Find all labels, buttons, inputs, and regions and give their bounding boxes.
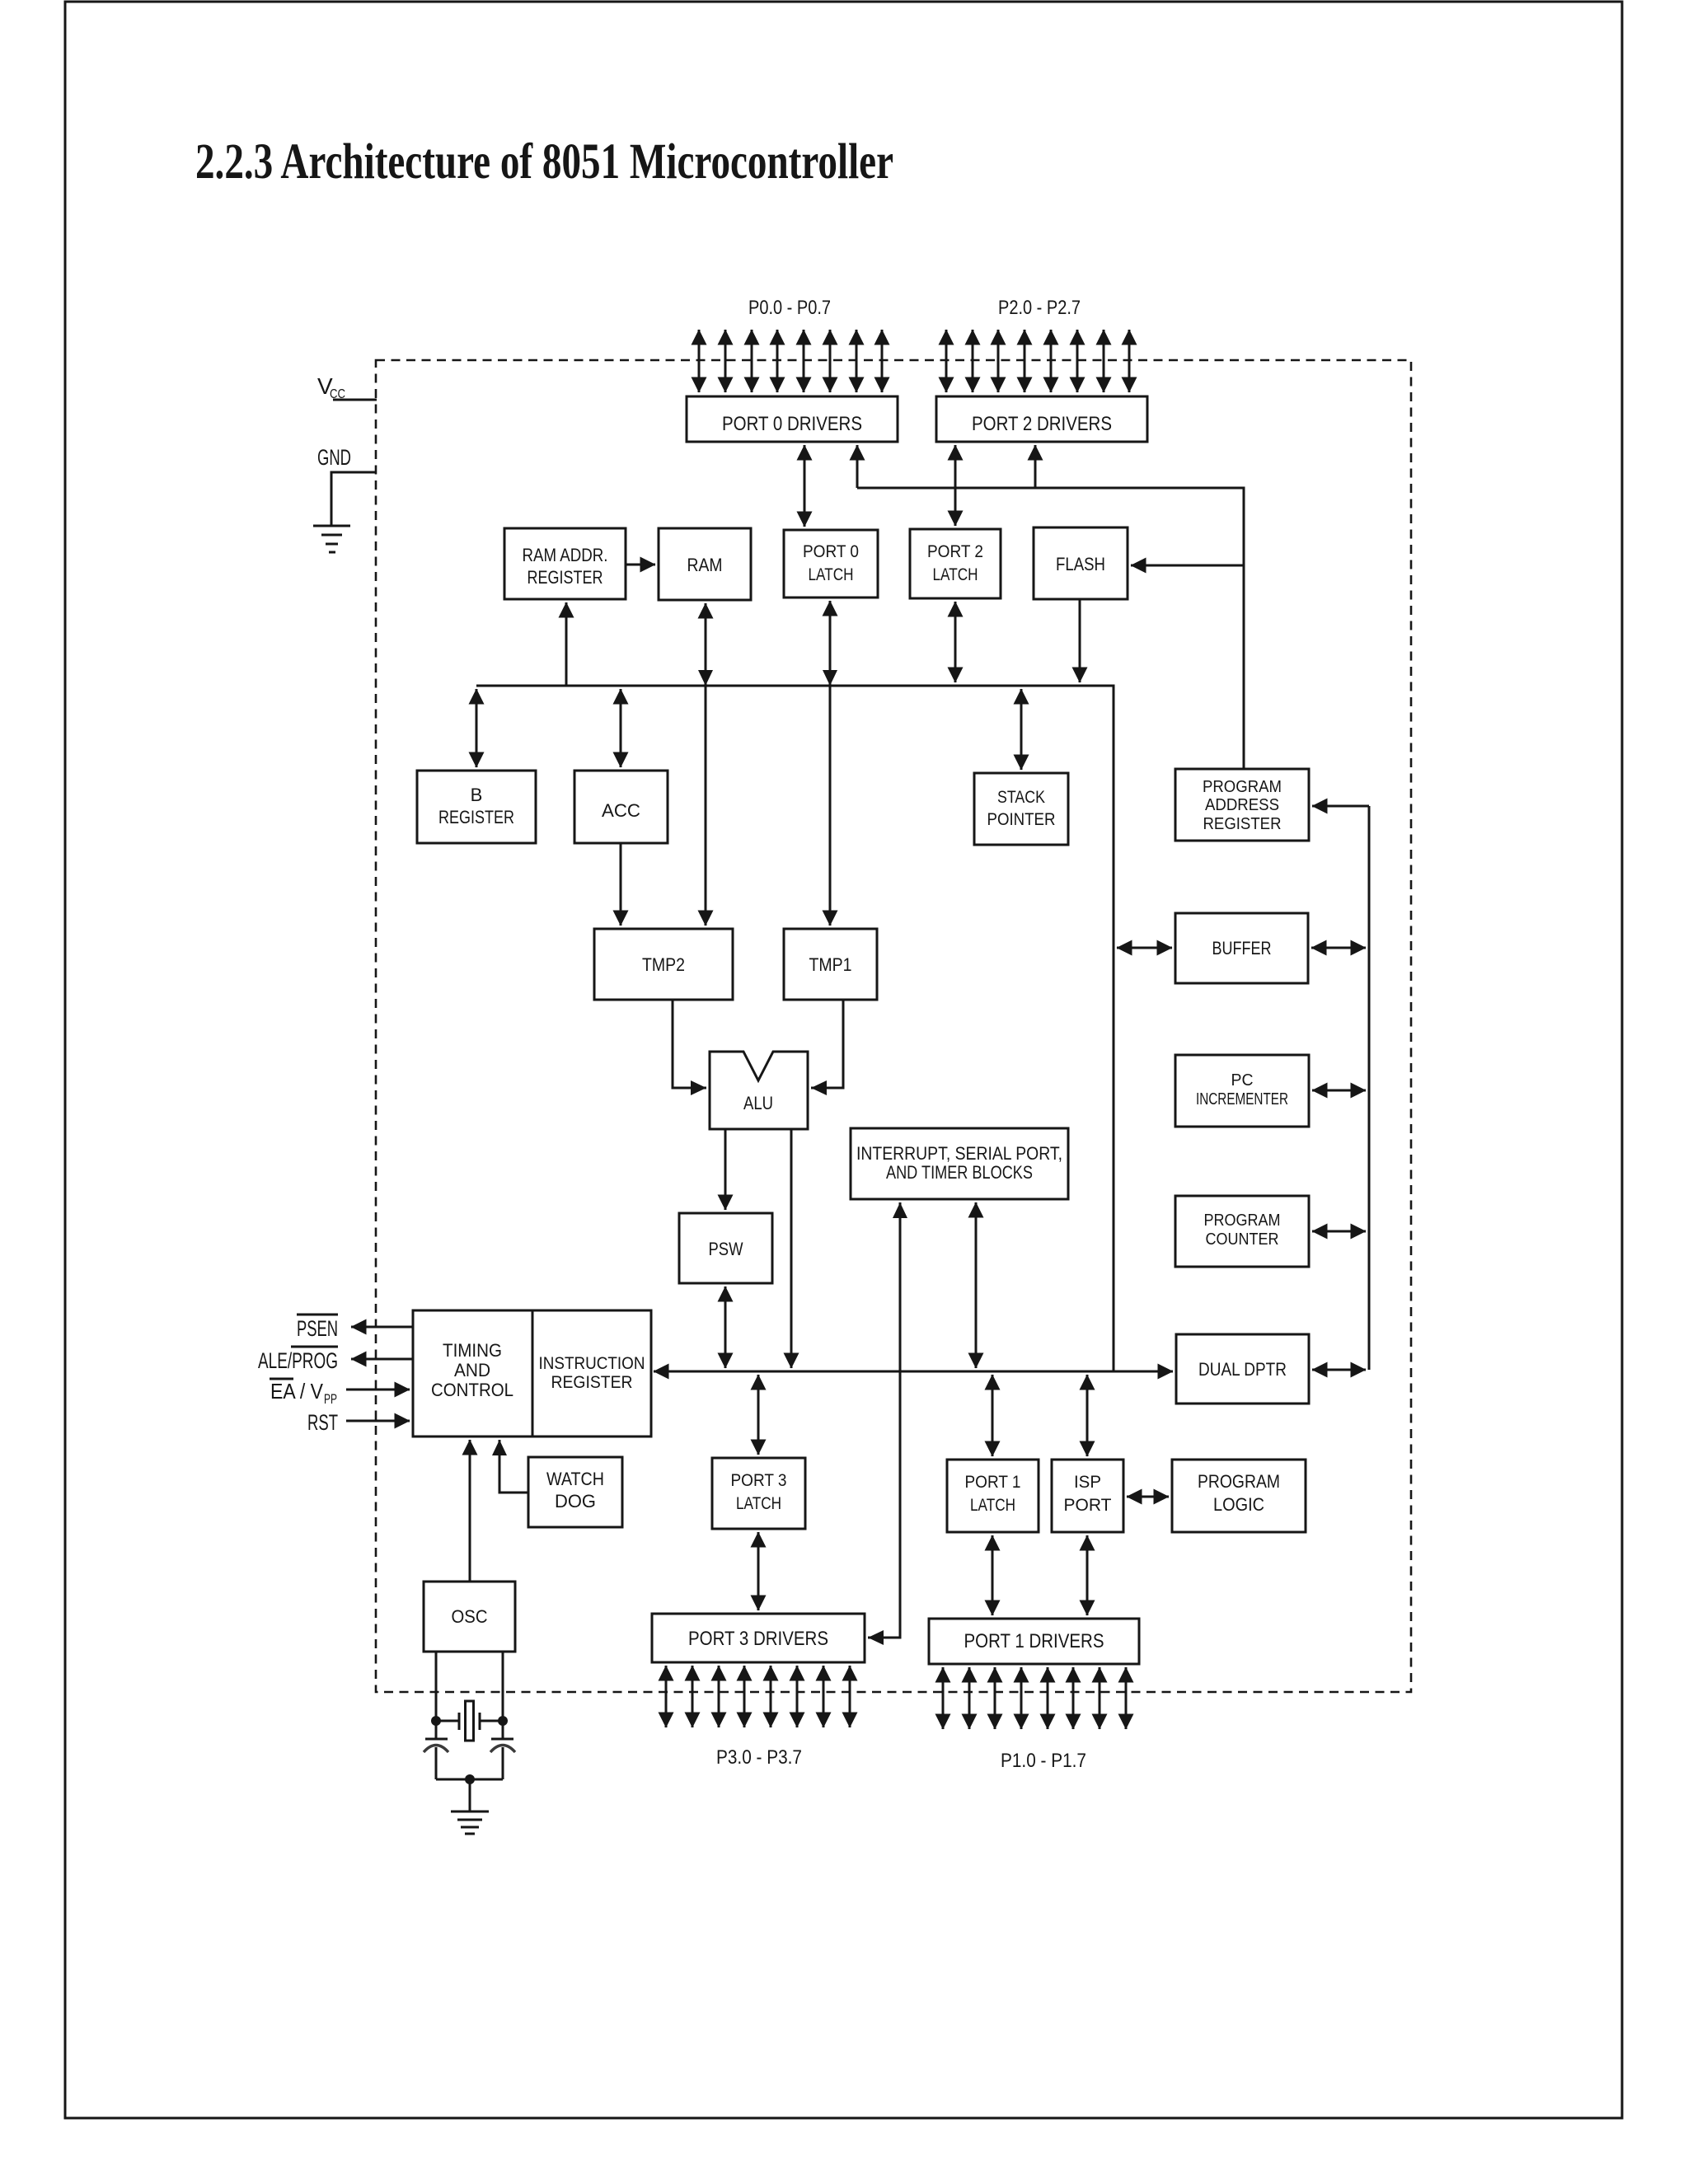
chip boundary (dashed outline) [376, 360, 1411, 1692]
wire PORT 0 DRIVERS to PORT 0 LATCH [804, 445, 806, 527]
TMP1 box [784, 929, 877, 1000]
ground symbol (GND pin) [313, 526, 350, 552]
BUFFER box [1175, 913, 1308, 983]
wire DUAL DPTR to program counter bus [1312, 1369, 1366, 1371]
wire control bus to ISP PORT [1086, 1375, 1089, 1456]
svg-text:OSC: OSC [452, 1606, 488, 1627]
svg-text:FLASH: FLASH [1056, 554, 1105, 574]
svg-text:PORT: PORT [1064, 1496, 1112, 1515]
wire BUFFER to program counter bus [1311, 947, 1366, 949]
RAM ADDR. REGISTER box [504, 528, 626, 599]
STACK POINTER box [974, 773, 1068, 845]
wire control bus to PORT 3 LATCH [757, 1375, 760, 1455]
svg-text:PSW: PSW [709, 1239, 743, 1259]
port 1 external pin arrows (P1.0-P1.7) [943, 1667, 1126, 1729]
svg-text:INSTRUCTION: INSTRUCTION [539, 1354, 645, 1373]
wire OSC left leg [435, 1652, 438, 1721]
wire GND pin to chip and ground [331, 472, 377, 525]
wire bus to B REGISTER [476, 689, 478, 767]
wire PSEN [351, 1326, 413, 1329]
internal data bus (horizontal, turning down at right) [476, 686, 1114, 1371]
ISP PORT box [1052, 1460, 1123, 1532]
svg-text:BUFFER: BUFFER [1212, 938, 1272, 958]
svg-text:GND: GND [317, 445, 351, 470]
program counter bus (right vertical) [1368, 806, 1371, 1370]
svg-text:INTERRUPT, SERIAL PORT,: INTERRUPT, SERIAL PORT, [856, 1143, 1062, 1164]
wire oscillator ground rail [436, 1779, 503, 1781]
wire PORT 3 LATCH to PORT 3 DRIVERS [757, 1532, 760, 1610]
wire PORT 1 LATCH to PORT 1 DRIVERS [992, 1535, 994, 1615]
control bus (horizontal) [654, 1371, 1173, 1373]
svg-text:PORT 1 DRIVERS: PORT 1 DRIVERS [964, 1630, 1104, 1652]
wire ACC to TMP2 [620, 843, 622, 926]
capacitor C2 [490, 1721, 515, 1779]
svg-text:LATCH: LATCH [736, 1494, 781, 1513]
wire bus to ACC [620, 689, 622, 767]
INTERRUPT, SERIAL PORT, AND TIMER BLOCKS box [851, 1128, 1068, 1199]
svg-text:RST: RST [307, 1410, 338, 1435]
wire ISP PORT to PORT 1 DRIVERS [1086, 1535, 1089, 1615]
wire OSC right leg [502, 1652, 504, 1721]
wire WATCH DOG to TIMING AND CONTROL [492, 1440, 528, 1493]
svg-text:REGISTER: REGISTER [1203, 815, 1282, 833]
wire RAM ADDR. REGISTER to RAM [626, 564, 655, 566]
svg-text:PORT 3 DRIVERS: PORT 3 DRIVERS [688, 1628, 828, 1650]
svg-text:DUAL DPTR: DUAL DPTR [1198, 1359, 1287, 1380]
op-amp ALU box [710, 1052, 808, 1129]
svg-text:RAM ADDR.: RAM ADDR. [523, 545, 608, 565]
wire TMP2 to ALU [673, 1000, 706, 1095]
wire PORT 2 DRIVERS to PORT 2 LATCH [954, 445, 957, 526]
svg-text:LOGIC: LOGIC [1213, 1494, 1264, 1515]
wire PC INCREMENTER to program counter bus [1312, 1090, 1366, 1092]
svg-text:DOG: DOG [555, 1491, 596, 1511]
PORT 0 DRIVERS box [687, 396, 898, 442]
svg-text:AND: AND [454, 1360, 490, 1380]
wire bus to STACK POINTER [1020, 689, 1023, 770]
svg-text:REGISTER: REGISTER [527, 567, 603, 588]
RAM box [659, 528, 751, 600]
svg-text:2.2.3 Architecture of 8051 Mic: 2.2.3 Architecture of 8051 Microcontroll… [195, 134, 893, 190]
svg-text:POINTER: POINTER [987, 810, 1056, 829]
svg-text:AND TIMER BLOCKS: AND TIMER BLOCKS [886, 1162, 1033, 1183]
svg-text:WATCH: WATCH [546, 1469, 604, 1489]
port 3 external pin arrows (P3.0-P3.7) [666, 1666, 850, 1727]
wire program address bus to PORT 0 DRIVERS [856, 445, 859, 488]
svg-text:COUNTER: COUNTER [1206, 1230, 1279, 1249]
wire RAM / bus / TMP2 [698, 603, 713, 926]
wire PROGRAM COUNTER to program counter bus [1312, 1230, 1366, 1233]
B REGISTER box [417, 771, 536, 843]
wire program counter bus to PROGRAM ADDRESS REGISTER [1312, 805, 1369, 808]
wire FLASH to bus [1079, 599, 1081, 682]
port 0 external pin arrows (P0.0-P0.7) [699, 330, 882, 392]
wire interrupt block to PORT 3 DRIVERS [868, 1202, 907, 1645]
wire PORT 2 LATCH to bus [954, 602, 957, 682]
svg-text:INCREMENTER: INCREMENTER [1196, 1090, 1288, 1108]
wire RST [346, 1420, 410, 1422]
wire TMP1 to ALU [811, 1000, 843, 1095]
svg-text:ALE/PROG: ALE/PROG [258, 1348, 338, 1373]
svg-text:PROGRAM: PROGRAM [1203, 778, 1282, 796]
crystal X1 [436, 1701, 503, 1741]
svg-text:TMP1: TMP1 [809, 954, 852, 975]
wire internal bus to BUFFER [1117, 947, 1172, 949]
node ground rail junction [465, 1774, 475, 1784]
PORT 3 LATCH box [712, 1458, 805, 1529]
PORT 1 DRIVERS box [929, 1619, 1139, 1664]
PROGRAM LOGIC box [1172, 1460, 1306, 1532]
node crystal right junction [498, 1716, 508, 1726]
PSW box [679, 1213, 772, 1283]
PC INCREMENTER box [1175, 1055, 1309, 1127]
EA / VPP pin label (EA active low) [270, 1379, 337, 1407]
wire program address bus to FLASH [1131, 565, 1244, 567]
svg-text:ACC: ACC [602, 800, 640, 821]
DUAL DPTR box [1176, 1334, 1309, 1404]
svg-text:P2.0 - P2.7: P2.0 - P2.7 [998, 297, 1081, 319]
svg-text:PORT 0: PORT 0 [803, 542, 859, 561]
svg-text:PROGRAM: PROGRAM [1204, 1212, 1281, 1230]
svg-text:RAM: RAM [687, 555, 723, 575]
svg-text:REGISTER: REGISTER [438, 807, 514, 827]
svg-text:PROGRAM: PROGRAM [1198, 1471, 1280, 1492]
svg-text:PC: PC [1231, 1071, 1254, 1090]
svg-text:B: B [471, 785, 483, 805]
svg-text:PORT 2: PORT 2 [927, 542, 983, 561]
wire program address bus to PORT 2 DRIVERS [1034, 445, 1037, 488]
ALE/PROG pin label (PROG active low) [258, 1347, 338, 1373]
PSEN pin label (active low) [297, 1315, 338, 1341]
wire OSC to TIMING AND CONTROL [469, 1440, 471, 1582]
capacitor C1 [424, 1721, 448, 1779]
wire interrupt block to control bus [975, 1202, 978, 1368]
svg-text:TMP2: TMP2 [642, 954, 685, 975]
wire PORT 0 LATCH / bus / TMP1 [823, 601, 837, 926]
wire ALU to control bus [790, 1129, 793, 1368]
port 2 external pin arrows (P2.0-P2.7) [946, 330, 1129, 392]
FLASH box [1034, 527, 1128, 599]
OSC box [424, 1582, 515, 1652]
svg-text:P0.0 - P0.7: P0.0 - P0.7 [748, 297, 831, 319]
ACC box [574, 771, 668, 843]
wire PSW to control bus [724, 1286, 727, 1368]
wire Vcc to chip [333, 399, 377, 401]
svg-text:LATCH: LATCH [809, 565, 854, 584]
wire EA / VPP [346, 1389, 410, 1391]
PORT 0 LATCH box [784, 530, 878, 598]
svg-text:P3.0 - P3.7: P3.0 - P3.7 [716, 1746, 802, 1769]
wire ALE/PROG [351, 1358, 413, 1361]
wire control bus to PORT 1 LATCH [992, 1375, 994, 1456]
PORT 2 DRIVERS box [936, 396, 1147, 442]
wire rail to ground [469, 1779, 471, 1811]
wire bus to RAM ADDR. REGISTER [565, 602, 568, 686]
svg-text:P1.0 - P1.7: P1.0 - P1.7 [1001, 1750, 1086, 1772]
svg-text:PSEN: PSEN [297, 1316, 338, 1341]
PROGRAM COUNTER box [1175, 1196, 1309, 1267]
svg-text:ADDRESS: ADDRESS [1205, 796, 1279, 814]
WATCH DOG box [528, 1457, 622, 1527]
program address bus wire (to PROGRAM ADDRESS REGISTER) [857, 488, 1244, 769]
PORT 1 LATCH box [947, 1460, 1039, 1532]
svg-text:PORT 0 DRIVERS: PORT 0 DRIVERS [722, 413, 862, 435]
wire ALU to PSW [724, 1129, 727, 1210]
svg-text:EA / V: EA / V [270, 1379, 324, 1404]
svg-text:PORT 1: PORT 1 [965, 1473, 1021, 1492]
svg-text:LATCH: LATCH [970, 1496, 1015, 1515]
svg-text:ALU: ALU [743, 1093, 773, 1113]
svg-text:TIMING: TIMING [443, 1340, 502, 1361]
TMP2 box [594, 929, 733, 1000]
svg-text:PP: PP [324, 1391, 337, 1407]
svg-text:REGISTER: REGISTER [551, 1373, 633, 1392]
PORT 2 LATCH box [910, 529, 1001, 598]
PROGRAM ADDRESS REGISTER box [1175, 769, 1309, 841]
TIMING AND CONTROL / INSTRUCTION REGISTER box [413, 1310, 651, 1436]
svg-text:LATCH: LATCH [933, 565, 978, 584]
svg-text:ISP: ISP [1074, 1473, 1101, 1492]
ground symbol (oscillator) [451, 1811, 489, 1834]
wire ISP PORT to PROGRAM LOGIC [1127, 1496, 1169, 1498]
svg-text:CONTROL: CONTROL [431, 1380, 513, 1400]
svg-text:PORT 3: PORT 3 [731, 1471, 787, 1490]
PORT 3 DRIVERS box [652, 1614, 865, 1662]
svg-text:STACK: STACK [997, 788, 1045, 807]
Vcc pin label [317, 373, 345, 401]
svg-text:PORT 2 DRIVERS: PORT 2 DRIVERS [972, 413, 1112, 435]
node crystal left junction [431, 1716, 441, 1726]
